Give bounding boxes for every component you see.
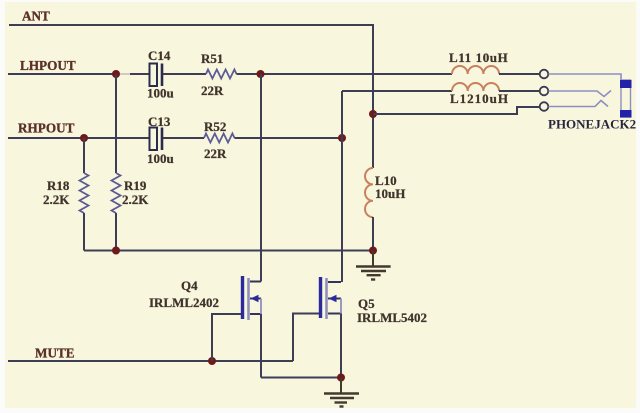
wire L12 horizontal <box>342 90 452 92</box>
wire MUTE rail <box>8 360 293 362</box>
wire RHPOUT rail <box>8 137 150 139</box>
wire Q5 gate lead <box>293 314 319 362</box>
svg-text:IRLML2402: IRLML2402 <box>149 295 219 310</box>
svg-text:Q5: Q5 <box>358 296 375 311</box>
svg-text:RHPOUT: RHPOUT <box>18 121 75 136</box>
wire C13 to R52 <box>163 137 204 139</box>
node junction R52/Q5 drain <box>338 134 346 142</box>
wire L12 to jack pin2 <box>499 90 540 92</box>
svg-text:R19: R19 <box>124 178 147 193</box>
capacitor C14 <box>147 48 174 101</box>
svg-text:C14: C14 <box>148 48 171 63</box>
svg-text:22R: 22R <box>201 83 224 98</box>
svg-text:R51: R51 <box>201 51 223 66</box>
svg-text:2.2K: 2.2K <box>43 192 70 207</box>
svg-text:2.2K: 2.2K <box>122 192 149 207</box>
wire C14 to R51 <box>163 73 206 75</box>
capacitor C13 <box>147 114 174 166</box>
wire R51 to L11 <box>237 73 453 75</box>
resistor R19 <box>112 74 150 251</box>
transistor Q5 <box>321 277 428 325</box>
wire LHPOUT faded segment <box>120 73 131 75</box>
node junction MUTE/Q4 gate <box>208 357 216 365</box>
svg-text:ANT: ANT <box>22 9 50 24</box>
wire Q4 source vertical <box>260 314 262 378</box>
node junction sources/ground <box>337 374 345 382</box>
transistor Q4 <box>149 276 261 320</box>
svg-text:Q4: Q4 <box>181 278 198 293</box>
wire LHPOUT rail <box>8 73 116 75</box>
node junction R19/bottom rail <box>112 247 120 255</box>
svg-text:R52: R52 <box>204 119 226 134</box>
wire L10 to ground rail <box>372 217 374 251</box>
resistor R18 <box>43 138 89 251</box>
inductor L12 <box>450 83 509 106</box>
node junction RHPOUT/R18 <box>80 134 88 142</box>
wire bottom rail R18/R19 to ground <box>84 250 373 252</box>
wire Q5 source vertical <box>340 314 342 378</box>
node junction ANT/sleeve <box>369 110 377 118</box>
node junction R51/Q4 drain <box>257 70 265 78</box>
inductor L11 <box>449 50 508 74</box>
connector PHONEJACK2 <box>540 70 636 132</box>
wire source rail to ground <box>261 377 341 379</box>
ground GND2 <box>324 378 359 407</box>
inductor L10 <box>365 168 405 217</box>
wire ANT horizontal rail <box>9 24 373 26</box>
wire R52 to Q5 drain vertical <box>235 137 343 139</box>
ground GND1 <box>356 251 391 280</box>
svg-text:MUTE: MUTE <box>35 346 75 361</box>
wire Q4 gate lead <box>212 314 241 361</box>
node junction bottom rail/ground <box>369 247 377 255</box>
wire L12 corner to Q5 drain <box>341 91 343 282</box>
wire ANT vertical drop to L10 <box>372 24 374 168</box>
svg-text:C13: C13 <box>148 114 171 129</box>
svg-text:100u: 100u <box>147 151 174 166</box>
wire L11 to jack pin1 <box>499 73 540 75</box>
wire sleeve line to jack pin3 <box>373 107 540 114</box>
svg-text:L1210uH: L1210uH <box>450 91 509 106</box>
resistor R52 <box>204 119 235 161</box>
svg-text:10uH: 10uH <box>375 186 405 201</box>
svg-text:IRLML5402: IRLML5402 <box>357 310 427 325</box>
node junction LHPOUT/C14/R19 <box>112 70 120 78</box>
svg-text:100u: 100u <box>147 86 174 101</box>
svg-text:R18: R18 <box>47 178 70 193</box>
svg-text:PHONEJACK2: PHONEJACK2 <box>548 117 636 132</box>
svg-text:LHPOUT: LHPOUT <box>20 58 76 73</box>
wire Q4 drain vertical <box>260 74 262 282</box>
wire LHPOUT to C14 <box>130 73 150 75</box>
svg-text:L11 10uH: L11 10uH <box>449 50 508 65</box>
svg-text:22R: 22R <box>204 146 227 161</box>
resistor R51 <box>201 51 237 98</box>
